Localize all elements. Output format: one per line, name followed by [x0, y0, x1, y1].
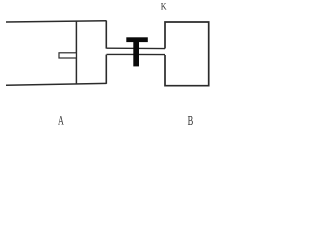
cylinder A bottom wall	[6, 83, 107, 85]
label K	[161, 3, 167, 13]
cylinder A right wall lower segment	[105, 55, 107, 84]
piston face in cylinder A	[75, 21, 77, 84]
svg-text:A: A	[58, 114, 64, 128]
svg-text:K: K	[161, 3, 167, 13]
stopcock K stem	[133, 41, 139, 67]
stopcock K handle cap	[126, 37, 148, 42]
piston rod stub	[59, 53, 76, 58]
cylinder A top wall	[6, 21, 107, 22]
connecting tube top wall	[107, 47, 166, 49]
label B	[188, 113, 194, 128]
connecting tube bottom wall	[107, 53, 166, 55]
label A	[58, 114, 64, 128]
cylinder A right wall upper segment	[105, 21, 107, 49]
vessel B outline	[165, 22, 209, 86]
svg-text:B: B	[188, 113, 194, 128]
